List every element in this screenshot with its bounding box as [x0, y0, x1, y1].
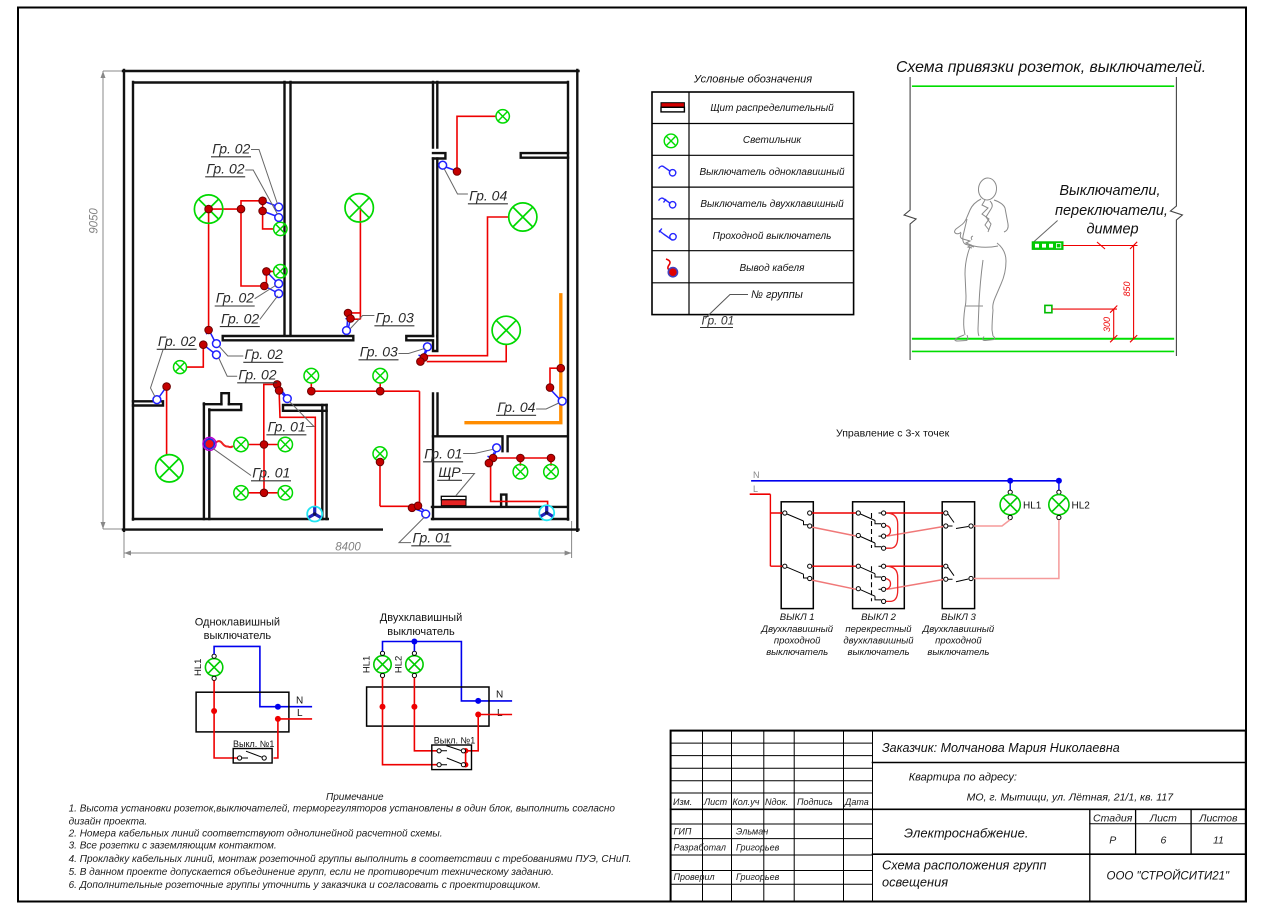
- blue key ticks kitchen: [275, 383, 286, 396]
- node J22: [260, 489, 268, 497]
- small lamp S7: [373, 447, 387, 461]
- dimmer outlet: [203, 437, 216, 450]
- HL2 bottom terminal: [1057, 515, 1061, 519]
- inner wall line bottom left: [133, 518, 328, 520]
- svg-text:Условные обозначения: Условные обозначения: [693, 74, 813, 86]
- circuit1 node lamp wire: [211, 708, 217, 714]
- blue key tick gr04 top: [446, 167, 456, 171]
- lower switch box: [1045, 305, 1052, 312]
- HL1 bottom terminal: [1008, 515, 1012, 519]
- svg-text:2. Номера кабельных линий соот: 2. Номера кабельных линий соответствуют …: [68, 828, 443, 840]
- circuit1 wire N blue: [214, 646, 312, 706]
- switch box VYKL1: [781, 502, 813, 609]
- svg-text:выключатель: выключатель: [766, 647, 828, 658]
- small lamp S10: [234, 486, 248, 500]
- dimension 850: [1063, 242, 1138, 342]
- circuit2 lamp HL1: [374, 656, 391, 673]
- corridor top wall: [223, 336, 354, 340]
- label gr03 c1: [350, 310, 414, 329]
- fan F2: [539, 505, 554, 520]
- svg-text:Выкл. №1: Выкл. №1: [233, 739, 274, 749]
- switch circle bathroom: [493, 444, 501, 452]
- floor green line 1: [912, 338, 1174, 340]
- svg-text:Кол.уч: Кол.уч: [733, 797, 760, 807]
- svg-text:Двухклавишный: Двухклавишный: [760, 624, 833, 635]
- outer wall top: [123, 70, 579, 72]
- label gr01 e2: [213, 449, 291, 481]
- wall line right with break: [1170, 77, 1182, 356]
- orange balcony line: [464, 293, 560, 423]
- small lamp S2: [274, 222, 287, 235]
- wire to S4: [187, 345, 204, 367]
- stadia header underline: [1090, 823, 1246, 825]
- svg-text:Выключатель одноклавишный: Выключатель одноклавишный: [699, 167, 844, 178]
- B3 contacts lower: [944, 564, 973, 582]
- walls: [123, 70, 579, 531]
- title block frame: [671, 731, 1246, 902]
- svg-text:ГИП: ГИП: [674, 827, 692, 837]
- wall A2 lower: [433, 393, 438, 519]
- switch circle corridor1: [213, 340, 221, 348]
- svg-text:N: N: [296, 696, 303, 707]
- legend table frame: [652, 92, 854, 315]
- svg-text:5. В данном проекте допускаетс: 5. В данном проекте допускается объедине…: [69, 866, 554, 878]
- inner wall line top: [134, 81, 568, 83]
- red link B2-B3 bottom: [886, 565, 944, 567]
- node J8: [163, 383, 171, 391]
- big lamp L1: [194, 195, 222, 223]
- wire L3 to hall switch: [427, 217, 509, 356]
- dimmer squiggle: [215, 441, 233, 447]
- svg-text:Дата: Дата: [844, 797, 869, 807]
- B3 output to HL2: [973, 520, 1059, 579]
- svg-text:Выключатель двухклавишный: Выключатель двухклавишный: [700, 199, 844, 210]
- svg-text:HL1: HL1: [362, 656, 373, 673]
- circuit2 lamp HL2: [406, 656, 423, 673]
- legend icon: lamp: [664, 134, 678, 148]
- svg-text:Гр. 01: Гр. 01: [424, 446, 462, 462]
- outer wall bottom right: [430, 528, 579, 530]
- node J27: [517, 454, 525, 462]
- blue key ticks mid cluster: [262, 270, 276, 292]
- switch circle top2: [275, 214, 283, 222]
- svg-text:Гр. 01: Гр. 01: [252, 465, 290, 481]
- fan F1: [307, 507, 322, 522]
- node J19: [273, 381, 281, 389]
- big lamp L4: [492, 316, 520, 344]
- small lamp S3: [274, 265, 287, 278]
- kitchen top wall seg1: [204, 404, 241, 410]
- dim line 9050: [101, 71, 123, 529]
- legend icon: distribution panel: [661, 103, 684, 112]
- svg-text:Р: Р: [1109, 835, 1116, 847]
- label gr03 c2: [359, 344, 426, 360]
- label gr04 d2: [496, 399, 559, 415]
- label gr04 d1: [444, 169, 508, 204]
- node J2: [259, 197, 267, 205]
- legend table grid: [652, 92, 854, 315]
- switch circle left: [153, 396, 161, 404]
- switch circle corridor2: [213, 351, 221, 359]
- svg-text:N: N: [753, 470, 760, 480]
- svg-text:Григорьев: Григорьев: [736, 872, 780, 882]
- svg-text:диммер: диммер: [1087, 222, 1139, 238]
- svg-text:Управление с 3-х точек: Управление с 3-х точек: [836, 428, 950, 440]
- svg-text:переключатели,: переключатели,: [1055, 203, 1168, 219]
- svg-text:Григорьев: Григорьев: [736, 843, 780, 853]
- salmon diagonal B1-B2 upper: [812, 527, 857, 536]
- svg-text:Подпись: Подпись: [797, 797, 833, 807]
- wire L4 to hall switch: [427, 344, 507, 361]
- drop to HL1: [1008, 481, 1012, 495]
- svg-text:Гр. 02: Гр. 02: [158, 333, 196, 349]
- B3 output to HL1: [973, 520, 1010, 526]
- node J28: [547, 454, 555, 462]
- wall line left with break: [904, 77, 916, 360]
- label gr01 e3: [423, 446, 493, 462]
- node J25: [489, 454, 497, 462]
- node J26: [485, 459, 493, 467]
- node J16: [308, 387, 316, 395]
- human figure: [955, 177, 1009, 341]
- wall A2 door jamb: [433, 153, 445, 158]
- svg-text:Квартира по адресу:: Квартира по адресу:: [909, 772, 1017, 784]
- small lamp S12: [513, 464, 528, 479]
- wire to lower cluster: [241, 209, 274, 286]
- drop to HL2: [1057, 481, 1061, 495]
- small lamp S8: [234, 437, 248, 451]
- node J24: [414, 502, 422, 510]
- switch circle hall gr03: [424, 343, 432, 351]
- bathroom bottom notch: [501, 495, 506, 506]
- wire L1 down to corridor switch: [208, 209, 210, 330]
- stadia cells: [1093, 813, 1238, 847]
- svg-text:Проходной выключатель: Проходной выключатель: [713, 231, 832, 242]
- svg-text:ООО "СТРОЙСИТИ21": ООО "СТРОЙСИТИ21": [1107, 870, 1230, 883]
- blue key ticks corridor double: [201, 330, 215, 353]
- crossover arc t2-t3 upper: [884, 525, 891, 536]
- outer wall bottom left: [123, 528, 382, 530]
- svg-text:Гр. 02: Гр. 02: [221, 310, 259, 326]
- kitchen top wall seg2: [283, 405, 327, 411]
- wire bathroom fan: [489, 463, 548, 505]
- node J12: [417, 358, 425, 366]
- svg-text:Листов: Листов: [1198, 813, 1238, 825]
- svg-text:Гр. 02: Гр. 02: [245, 346, 283, 362]
- svg-text:Схема привязки розеток, выключ: Схема привязки розеток, выключателей.: [896, 59, 1206, 76]
- svg-text:ВЫКЛ 3: ВЫКЛ 3: [941, 612, 977, 623]
- red link B1-B2 top: [812, 512, 856, 514]
- B2 contacts upper: [856, 511, 886, 550]
- leader to switch block: [1033, 221, 1058, 243]
- legend row texts: [699, 103, 844, 274]
- svg-text:6: 6: [1160, 835, 1166, 847]
- blue key tick gr04 right: [550, 389, 559, 399]
- wire corridor lamps: [311, 383, 419, 506]
- svg-text:Гр. 01: Гр. 01: [268, 419, 306, 435]
- circuit1 junction box: [196, 692, 289, 732]
- switch box VYKL3: [942, 502, 974, 609]
- top-right room bottom wall: [521, 153, 568, 158]
- header labels row: [673, 797, 869, 807]
- kitchen left wall: [204, 403, 209, 519]
- small lamp S1: [496, 110, 509, 123]
- label gr02 b6: [219, 346, 283, 362]
- circuit1 node N: [275, 704, 281, 710]
- title block right horizontals: [873, 763, 1246, 855]
- svg-text:Электроснабжение.: Электроснабжение.: [904, 826, 1028, 841]
- B1 contacts lower: [783, 564, 812, 581]
- salmon diagonal B1-B2 lower: [812, 580, 857, 589]
- circuit1 switch contacts: [238, 751, 267, 760]
- circuit2 lamp terminals: [380, 651, 416, 677]
- svg-text:L: L: [497, 708, 503, 719]
- crossover arc t1-t4 lower: [884, 566, 898, 601]
- circuit2 node w1: [380, 704, 386, 710]
- circuit2 switch contacts: [437, 746, 466, 767]
- inner wall line left: [132, 82, 134, 520]
- svg-text:8400: 8400: [335, 542, 361, 554]
- legend group number leader: [705, 295, 748, 319]
- VYKL2 labels: [843, 612, 914, 658]
- switch circle mid2: [275, 290, 283, 298]
- svg-text:Гр. 04: Гр. 04: [469, 188, 507, 204]
- bathroom bottom wall: [432, 506, 568, 508]
- svg-text:проходной: проходной: [935, 636, 982, 647]
- circuit1 switch box: [233, 749, 272, 764]
- wire L1 to junction: [209, 201, 274, 229]
- wire kitchen feed: [248, 384, 278, 492]
- node J11: [420, 354, 428, 362]
- bathroom top wall: [433, 436, 568, 451]
- svg-text:проходной: проходной: [774, 636, 821, 647]
- node J3: [259, 207, 267, 215]
- wire L red: [750, 493, 771, 495]
- label gr02 b7: [219, 358, 278, 383]
- switch circle entrance: [422, 510, 430, 518]
- small lamp S13: [544, 464, 559, 479]
- switch circle mid1: [275, 280, 283, 288]
- svg-text:Заказчик: Молчанова Мария Нико: Заказчик: Молчанова Мария Николаевна: [882, 741, 1120, 755]
- bottom-left room top wall: [133, 401, 163, 405]
- salmon diagonal B2-B3 upper: [887, 527, 944, 537]
- svg-text:выключатель: выключатель: [204, 630, 272, 642]
- svg-text:3. Все розетки с заземляющим к: 3. Все розетки с заземляющим контактом.: [69, 841, 277, 852]
- blue key ticks bathroom: [488, 452, 496, 464]
- switch circle room2 gr03: [343, 327, 351, 335]
- circuit2 node sw1: [463, 748, 469, 754]
- node J18: [376, 458, 384, 466]
- svg-text:двухклавишный: двухклавишный: [843, 636, 914, 647]
- small lamp S5: [304, 368, 319, 383]
- outer wall left: [123, 70, 125, 531]
- svg-text:Nдок.: Nдок.: [765, 797, 788, 807]
- node J17: [376, 387, 384, 395]
- label gr02 b4: [220, 296, 278, 327]
- corridor stub wall: [406, 336, 437, 351]
- dimension 300: [1052, 306, 1117, 343]
- svg-text:11: 11: [1213, 835, 1224, 847]
- circuit2 node N: [475, 698, 481, 704]
- salmon diagonal B2-B3 lower: [887, 580, 944, 590]
- switch circle top1: [275, 203, 283, 211]
- wire gr04 right: [550, 368, 561, 387]
- svg-text:HL2: HL2: [394, 656, 405, 673]
- svg-text:Гр. 02: Гр. 02: [212, 141, 250, 157]
- label gr02 a1: [211, 141, 278, 205]
- svg-text:Разработал: Разработал: [674, 843, 726, 853]
- legend icon: 2-gang switch: [659, 198, 676, 208]
- svg-text:Эльман: Эльман: [736, 827, 768, 837]
- label gr02 a2: [205, 161, 278, 215]
- node L1 center: [205, 205, 213, 213]
- svg-text:Гр. 04: Гр. 04: [497, 399, 535, 415]
- switch box VYKL2: [853, 502, 905, 609]
- node J10: [347, 315, 355, 323]
- circuit2 node sw2: [463, 762, 469, 768]
- title block header thick line: [671, 808, 873, 810]
- svg-text:Щит распределительный: Щит распределительный: [710, 103, 834, 114]
- svg-text:L: L: [753, 484, 758, 494]
- small lamp S9: [278, 437, 292, 451]
- node J6: [205, 326, 213, 334]
- wall A line2: [289, 82, 291, 336]
- svg-text:Гр. 02: Гр. 02: [216, 290, 254, 306]
- title block left grid horizontals: [671, 743, 873, 884]
- node J13: [453, 168, 461, 176]
- svg-text:Гр. 02: Гр. 02: [206, 161, 244, 177]
- B3 contacts upper: [944, 511, 973, 529]
- svg-text:Выкл. №1: Выкл. №1: [434, 736, 475, 746]
- svg-text:1. Высота установки розеток,вы: 1. Высота установки розеток,выключателей…: [69, 803, 616, 815]
- dim line 8400: [124, 521, 572, 558]
- svg-text:выключатель: выключатель: [927, 647, 989, 658]
- wire N blue: [751, 480, 1059, 482]
- circuit1 lamp HL1: [205, 659, 222, 676]
- svg-text:Примечание: Примечание: [326, 792, 384, 803]
- blue key ticks entrance: [410, 506, 424, 512]
- switch circle gr04 right: [558, 397, 566, 405]
- shchr panel: [441, 496, 466, 505]
- big lamp L2: [345, 194, 373, 222]
- svg-text:HL1: HL1: [193, 659, 204, 676]
- svg-text:Стадия: Стадия: [1093, 813, 1133, 825]
- svg-text:Гр. 01: Гр. 01: [702, 314, 735, 328]
- wire left switch to L5: [166, 387, 168, 455]
- red feed from L: [770, 494, 782, 566]
- label gr02 b5: [151, 333, 197, 397]
- svg-text:№ группы: № группы: [751, 289, 803, 301]
- wall A line1: [283, 82, 285, 336]
- svg-text:9050: 9050: [89, 208, 101, 234]
- title block left grid verticals: [703, 731, 873, 902]
- svg-text:ЩР: ЩР: [438, 464, 461, 480]
- svg-text:Гр. 03: Гр. 03: [376, 310, 414, 326]
- circuit1 wire L red: [214, 681, 312, 759]
- red link B1-B2 bottom: [812, 565, 856, 567]
- svg-text:N: N: [496, 690, 503, 701]
- label shchr: [437, 464, 474, 496]
- circuit2 node L: [475, 712, 481, 718]
- kitchen pillar: [221, 393, 229, 404]
- node J5: [261, 282, 269, 290]
- node J23: [408, 504, 416, 512]
- wire bathroom lamps: [493, 458, 551, 466]
- node J20: [275, 387, 283, 395]
- svg-text:HL2: HL2: [1072, 501, 1091, 512]
- circuit2 wires red: [383, 678, 513, 765]
- svg-text:перекрестный: перекрестный: [845, 624, 912, 635]
- svg-text:освещения: освещения: [882, 875, 948, 890]
- lamp HL1: [1000, 495, 1020, 515]
- lamp HL2: [1049, 495, 1069, 515]
- svg-text:Одноклавишный: Одноклавишный: [195, 617, 280, 629]
- crossover arc t1-t4 upper: [884, 513, 898, 548]
- svg-text:Схема расположения групп: Схема расположения групп: [882, 858, 1046, 873]
- svg-text:ВЫКЛ 1: ВЫКЛ 1: [780, 612, 815, 623]
- circuit2 junction box: [367, 687, 489, 726]
- wall A2 middle: [433, 159, 437, 337]
- wall A2 upper: [433, 82, 437, 148]
- node J14: [557, 364, 565, 372]
- inner wall line right: [567, 82, 569, 520]
- svg-text:Проверил: Проверил: [674, 872, 715, 882]
- inner wall line bottom right: [432, 518, 568, 520]
- blue key tick left single: [160, 387, 167, 397]
- wire L2 down: [348, 208, 360, 319]
- legend group sample label: [700, 314, 734, 328]
- wire S1 to switch: [457, 116, 496, 169]
- kitchen right wall: [322, 405, 326, 519]
- svg-text:Гр. 01: Гр. 01: [413, 530, 451, 546]
- svg-text:МО, г. Мытищи, ул. Лётная, 21/: МО, г. Мытищи, ул. Лётная, 21/1, кв. 117: [967, 792, 1175, 804]
- legend icon: 1-gang switch: [659, 166, 676, 176]
- svg-text:Гр. 03: Гр. 03: [360, 344, 398, 360]
- svg-text:L: L: [297, 708, 303, 719]
- svg-text:Светильник: Светильник: [743, 135, 803, 146]
- circuit2 wire N blue: [383, 642, 513, 701]
- small lamp S4: [174, 361, 187, 374]
- blue key ticks top cluster: [260, 198, 276, 216]
- svg-text:850: 850: [1122, 281, 1132, 296]
- node J21: [260, 441, 268, 449]
- floor green line 2: [912, 350, 1174, 352]
- node J1: [237, 205, 245, 213]
- circuit2 switch box: [432, 745, 472, 770]
- wire kitchen fan: [279, 391, 315, 507]
- legend icon: pass-through switch: [659, 229, 676, 241]
- switch circle gr04 top: [439, 161, 447, 169]
- svg-text:HL1: HL1: [1023, 501, 1042, 512]
- node J4: [263, 268, 271, 276]
- outer wall right: [576, 70, 578, 531]
- switch circle kitchen: [283, 395, 291, 403]
- small lamp S6: [373, 368, 388, 383]
- B2 contacts lower: [856, 564, 886, 603]
- svg-text:Двухклавишный: Двухклавишный: [380, 612, 462, 624]
- label gr01 e1: [266, 401, 314, 435]
- svg-text:4. Прокладку кабельных линий,: 4. Прокладку кабельных линий, монтаж роз…: [69, 853, 632, 865]
- svg-text:дизайн проекта.: дизайн проекта.: [69, 817, 148, 828]
- title block right verticals: [1090, 809, 1191, 901]
- VYKL3 labels: [922, 612, 995, 658]
- svg-text:300: 300: [1102, 317, 1112, 332]
- B1 contacts upper: [783, 511, 812, 528]
- circuit1 node L: [275, 716, 281, 722]
- svg-text:ВЫКЛ 2: ВЫКЛ 2: [861, 612, 897, 623]
- svg-text:Лист: Лист: [703, 797, 728, 807]
- node J9: [344, 309, 352, 317]
